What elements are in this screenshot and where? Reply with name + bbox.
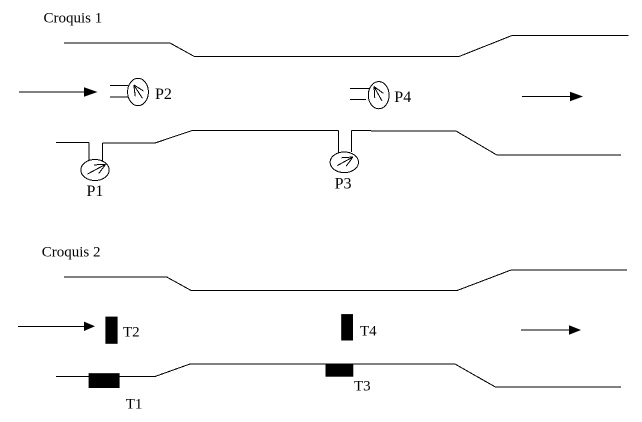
gauge P3 tap right vertical <box>350 131 352 152</box>
gauge P2 needle <box>134 85 144 98</box>
gauge P2 stub bottom <box>110 96 128 98</box>
gauge P1 tap left vertical <box>88 143 90 161</box>
gauge P4 stub top <box>350 87 369 89</box>
duct C1 top wall <box>64 36 629 57</box>
gauge P3 body <box>330 152 358 173</box>
svg-text:T4: T4 <box>360 324 377 340</box>
gauge P4 body <box>368 82 389 109</box>
gauge P1 tap right vertical <box>102 143 104 161</box>
gauge P2 body <box>128 78 149 105</box>
sensor T2 <box>105 317 117 344</box>
gauge P3 tap left vertical <box>337 131 339 153</box>
flow arrow C1 left <box>19 87 98 97</box>
gauge P1 body <box>81 160 109 181</box>
gauge P4 needle <box>374 87 383 102</box>
duct C1 bottom wall left segment <box>56 142 89 144</box>
gauge P3 needle <box>337 157 353 166</box>
gauge P2 stub top <box>110 84 128 86</box>
svg-text:T3: T3 <box>354 378 371 394</box>
svg-text:P2: P2 <box>155 86 172 103</box>
gauge P4 stub bottom <box>350 99 366 101</box>
svg-text:Croquis 2: Croquis 2 <box>42 244 101 260</box>
flow arrow C1 right <box>522 92 583 101</box>
sensor T4 <box>341 314 353 340</box>
duct C1 bottom wall middle segment <box>103 131 339 143</box>
duct C2 bottom wall <box>56 364 621 387</box>
sensor T3 <box>326 365 354 377</box>
sensor T1 <box>89 373 120 388</box>
flow arrow C2 right <box>521 325 581 335</box>
duct C1 bottom wall right segment <box>351 131 621 155</box>
svg-text:P1: P1 <box>87 183 104 200</box>
flow arrow C2 left <box>18 322 95 331</box>
svg-text:T2: T2 <box>123 324 140 340</box>
svg-text:T1: T1 <box>126 396 143 412</box>
duct C2 top wall <box>64 270 627 291</box>
svg-text:Croquis 1: Croquis 1 <box>44 11 103 27</box>
gauge P1 needle <box>88 164 106 174</box>
svg-text:P3: P3 <box>335 176 352 193</box>
svg-text:P4: P4 <box>394 89 411 106</box>
